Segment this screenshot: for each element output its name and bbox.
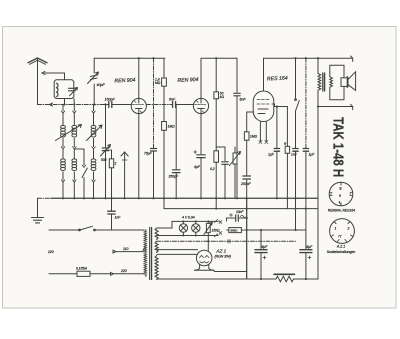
- svg-text:AZ 1: AZ 1: [216, 249, 227, 254]
- left tuning: vertical x=62.5 with coils: [61, 105, 66, 199]
- left box wire x=245.6: [246, 198, 248, 279]
- loudspeaker: [341, 72, 356, 91]
- svg-text:5nF: 5nF: [169, 98, 176, 102]
- tube V2 REN904: [193, 94, 208, 114]
- svg-text:40pF: 40pF: [97, 83, 106, 87]
- socket diagram REN904/RES164: [329, 182, 353, 206]
- rail A: [94, 57, 165, 59]
- svg-text:1μF: 1μF: [268, 153, 275, 157]
- resistor 2MΩ x=111: [106, 150, 114, 198]
- heater rheostat 150Ω: [204, 220, 212, 241]
- mains line bottom with fuse: [49, 271, 144, 276]
- svg-text:250pF: 250pF: [168, 175, 180, 179]
- svg-text:REN904, RES164: REN904, RES164: [328, 208, 355, 212]
- transformer core: [150, 228, 152, 280]
- svg-text:0,2: 0,2: [210, 167, 215, 171]
- antenna: [28, 58, 47, 105]
- svg-text:MΩ: MΩ: [155, 81, 161, 85]
- vertical x=73.75 with coils: [72, 103, 77, 198]
- voltage divider resistor: [274, 274, 295, 282]
- tube V3 RES164 output pentode: [253, 58, 287, 143]
- transformer secondary windings: [155, 228, 158, 280]
- svg-text:110: 110: [123, 247, 129, 251]
- svg-text:a: a: [339, 194, 341, 198]
- band switch x=84: [74, 149, 87, 198]
- socket diagram AZ1: [330, 219, 355, 244]
- jack symbol x=124.6: [121, 152, 128, 198]
- svg-text:TAK 1-48 H: TAK 1-48 H: [330, 117, 347, 177]
- wire screen line x=153.5: [153, 58, 155, 147]
- svg-text:220: 220: [120, 269, 127, 273]
- coupling capacitor 150pF: [104, 102, 131, 108]
- tube V1 REN904: [131, 94, 146, 114]
- grid line (dash-dot) node: [38, 103, 108, 106]
- bottom line y=279: [157, 278, 318, 280]
- svg-text:1nF: 1nF: [291, 153, 298, 157]
- svg-text:4μF: 4μF: [194, 165, 201, 169]
- heater line dash: [157, 240, 296, 244]
- svg-text:1nF: 1nF: [115, 216, 122, 220]
- filter node y=230: [246, 229, 306, 231]
- power transformer primary: [144, 230, 146, 276]
- svg-text:8μF: 8μF: [306, 245, 313, 249]
- antenna coil L1 box: [54, 80, 74, 105]
- svg-text:6nF: 6nF: [240, 98, 247, 102]
- svg-text:2: 2: [114, 162, 117, 166]
- svg-text:1MΩ: 1MΩ: [168, 125, 176, 129]
- capacitor 1nF mains filter: [108, 198, 115, 230]
- svg-text:(RGN 354): (RGN 354): [215, 255, 231, 259]
- svg-text:2: 2: [347, 227, 350, 231]
- second rail y=106.5: [317, 104, 353, 110]
- svg-text:150Ω: 150Ω: [212, 229, 221, 233]
- svg-text:REN 904: REN 904: [177, 77, 198, 84]
- resistor 0,1MΩ on x=164: [162, 122, 167, 199]
- capacitor 6nF on x=237: [234, 58, 240, 198]
- electrolytic 8μF #2: [300, 209, 312, 279]
- capacitor 1μF on x=276.9: [274, 107, 279, 199]
- capacitor on x=305.9: [303, 58, 308, 208]
- vertical x=93.75 with coils: [91, 105, 96, 199]
- tuning arrow across coils 1: [56, 125, 82, 141]
- svg-text:1: 1: [335, 227, 337, 231]
- rectifier tube AZ1: [157, 241, 247, 271]
- cathode resistor on x=216: [214, 151, 219, 209]
- trimmer capacitor 40pF: [88, 58, 99, 104]
- heater bus: [164, 198, 318, 208]
- resistor 50kΩ on x=216: [214, 58, 219, 151]
- svg-text:75pF: 75pF: [144, 152, 153, 156]
- B+ node junction dots: [215, 208, 307, 210]
- resistor 1,8MΩ on x=164: [162, 58, 167, 121]
- main ground bus: [38, 197, 319, 199]
- electrolytic 8μF #1: [255, 230, 267, 279]
- speaker field line x=318 down: [317, 107, 319, 280]
- mains line top: [49, 226, 144, 231]
- svg-text:Sockelschaltungen: Sockelschaltungen: [327, 250, 356, 254]
- svg-text:f: f: [350, 193, 351, 197]
- svg-text:RES 164: RES 164: [267, 75, 288, 82]
- wire V2 anode: [200, 58, 202, 93]
- svg-text:150pF: 150pF: [105, 98, 116, 102]
- svg-text:k: k: [339, 201, 341, 205]
- trimmer capacitor 30pF in coil box: [69, 88, 78, 96]
- switch on x=295.5: [295, 58, 300, 148]
- grid resistor 1MΩ x=245.6: [243, 112, 253, 279]
- svg-text:REN 904: REN 904: [114, 77, 135, 84]
- padder trimmer x=105.5: [101, 103, 111, 198]
- lamp return line: [157, 234, 218, 237]
- svg-text:4 V 0,04: 4 V 0,04: [182, 216, 195, 220]
- V2 cathode electrolytic 4μF: [194, 114, 206, 199]
- svg-text:SIND: SIND: [230, 229, 238, 233]
- grid leak capacitor 250pF on x=176: [172, 105, 180, 199]
- antenna terminal: [42, 72, 65, 80]
- svg-text:1MΩ: 1MΩ: [250, 135, 258, 139]
- output transformer: [318, 58, 344, 106]
- rail C: [264, 56, 353, 62]
- tuning arrow across coil 3: [87, 125, 103, 141]
- cathode wire V1: [138, 114, 140, 199]
- rail B: [201, 57, 237, 59]
- potentiometer x=235: [230, 147, 241, 198]
- svg-text:A.Z.1: A.Z.1: [336, 244, 345, 248]
- capacitor on x=295.5: [293, 149, 298, 231]
- resistor on x=287.4: [285, 107, 289, 209]
- svg-text:500: 500: [101, 158, 107, 162]
- svg-text:8μF: 8μF: [262, 245, 269, 249]
- ground symbol: [32, 198, 44, 223]
- B+ RC cluster SIND: [219, 214, 247, 235]
- svg-text:kΩ: kΩ: [220, 95, 225, 99]
- wire V1 anode: [138, 58, 140, 93]
- svg-text:1μF: 1μF: [309, 153, 316, 157]
- svg-text:0,1/50A: 0,1/50A: [76, 267, 87, 271]
- pilot lamps: [157, 220, 218, 236]
- svg-text:220: 220: [47, 250, 54, 254]
- svg-text:g: g: [340, 186, 342, 190]
- bypass capacitor x=225: [216, 147, 228, 198]
- svg-text:250pF: 250pF: [240, 182, 252, 186]
- capacitor on x=153.5: [151, 149, 157, 199]
- grid wire V1-V2 with coupling capacitor 5nF: [146, 102, 193, 108]
- mains voltage selector 110: [113, 248, 144, 253]
- svg-text:10nF: 10nF: [236, 210, 244, 214]
